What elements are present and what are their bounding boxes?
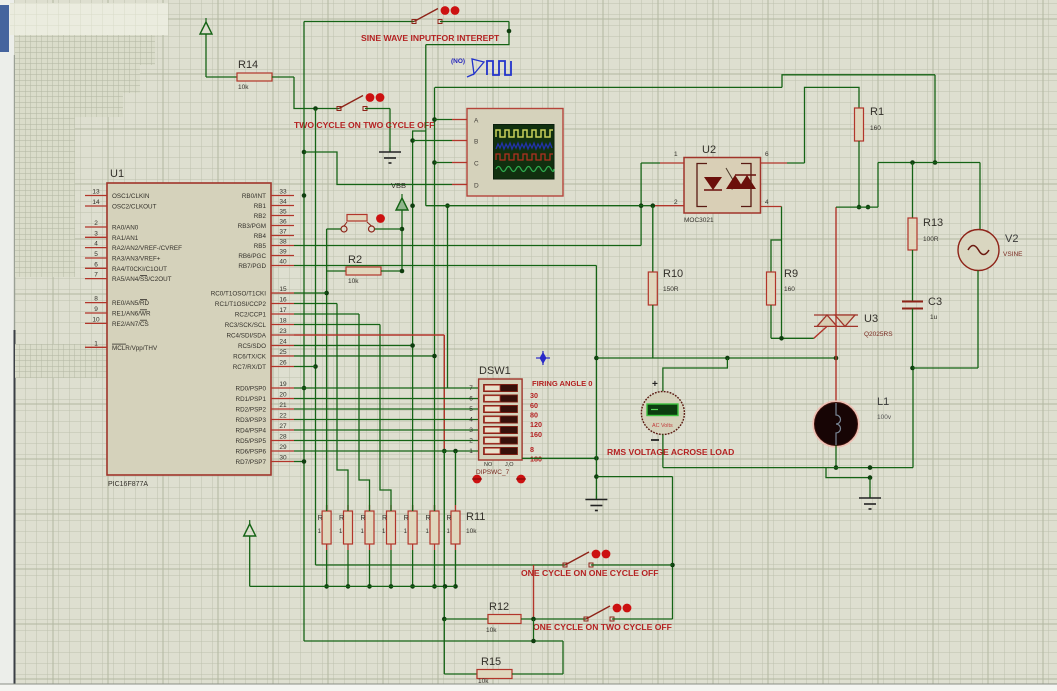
svg-text:8: 8 <box>94 296 98 303</box>
pin 38 stub <box>271 245 294 247</box>
svg-text:1: 1 <box>674 151 678 158</box>
wire C feed <box>435 162 453 164</box>
wire D feed <box>304 152 452 185</box>
junction bank7 top <box>453 449 458 454</box>
wire R10 top <box>652 206 654 272</box>
junction pin2 node <box>639 203 644 208</box>
switch TWO CYCLE <box>337 93 384 110</box>
U2 output triac triangles <box>726 175 756 189</box>
svg-text:2: 2 <box>469 438 473 445</box>
bank resistor 6 <box>430 511 439 544</box>
svg-text:R10: R10 <box>663 268 683 280</box>
wire long vertical B <box>315 109 317 566</box>
svg-text:RD6/PSP6: RD6/PSP6 <box>236 449 267 456</box>
svg-text:5: 5 <box>469 406 473 413</box>
svg-text:Q2025RS: Q2025RS <box>864 331 893 338</box>
wire R12 left <box>444 618 488 620</box>
svg-text:RA0/AN0: RA0/AN0 <box>112 225 139 232</box>
wire triac to lamp <box>835 358 837 403</box>
junction switch2 jog <box>531 617 536 622</box>
bank resistor 4 <box>387 511 396 544</box>
wire DSW pin1 down <box>443 451 445 586</box>
resistor R14 <box>237 73 272 81</box>
pin 28 stub <box>271 440 294 442</box>
junction R14/two-cycle <box>313 106 318 111</box>
svg-text:R11: R11 <box>466 511 485 523</box>
DIP switch DSW1 body <box>479 379 522 460</box>
svg-text:R: R <box>447 515 452 522</box>
bank resistor 2 top stub <box>347 505 349 511</box>
DSW1 slider 4 <box>485 417 501 423</box>
svg-text:40: 40 <box>279 259 287 266</box>
wire vertical 447 <box>447 206 449 388</box>
junction bus 1 <box>324 584 329 589</box>
wire V2 bottom <box>977 271 979 369</box>
wire gate net horizontal <box>596 357 836 359</box>
svg-text:A: A <box>474 117 479 124</box>
svg-text:10k: 10k <box>486 627 497 634</box>
wire mains y87 <box>435 86 782 88</box>
power symbol top-left <box>200 18 212 34</box>
bank resistor 7 <box>451 511 460 544</box>
pin 2 stub <box>85 226 107 228</box>
bank resistor 3 bottom stub <box>369 544 371 550</box>
U2 LED triangle <box>704 177 722 190</box>
svg-text:U3: U3 <box>864 313 878 325</box>
svg-text:37: 37 <box>279 229 287 236</box>
junction A row19 <box>302 386 307 391</box>
junction bus 4 <box>389 584 394 589</box>
svg-text:R: R <box>382 515 387 522</box>
wire triac top horizontal <box>836 206 878 208</box>
svg-text:RC5/SDO: RC5/SDO <box>238 343 266 350</box>
power symbol VBB <box>396 194 408 210</box>
wire to ground mid <box>389 109 391 149</box>
junction B feed <box>410 138 415 143</box>
svg-text:B: B <box>474 138 478 145</box>
svg-text:U2: U2 <box>702 144 716 156</box>
junction B row26 <box>313 364 318 369</box>
wire gate diagonal <box>814 326 827 338</box>
wire bank bus <box>250 585 456 587</box>
IC U1 PIC16F877A body <box>107 183 271 475</box>
bank resistor 4 top stub <box>390 505 392 511</box>
pin 24 stub <box>271 345 294 347</box>
wire R9 top jog <box>771 240 782 272</box>
wire pin2 long left <box>426 205 641 207</box>
wire jog 533 down <box>533 619 535 641</box>
svg-text:RB5: RB5 <box>254 243 267 250</box>
svg-text:6: 6 <box>765 151 769 158</box>
wire arrow down <box>249 536 251 586</box>
svg-text:DSW1: DSW1 <box>479 365 511 377</box>
generator probe triangle <box>467 59 484 77</box>
bank resistor 1 top wire <box>326 505 328 511</box>
svg-text:ONE CYCLE ON ONE CYCLE OFF: ONE CYCLE ON ONE CYCLE OFF <box>521 568 659 578</box>
wire voltmeter minus <box>662 435 664 468</box>
svg-text:10: 10 <box>92 316 100 323</box>
wire C3 bottom <box>912 309 914 369</box>
junction bus 5 <box>410 584 415 589</box>
svg-text:RD1/PSP1: RD1/PSP1 <box>236 396 267 403</box>
voltmeter minus <box>651 439 659 441</box>
source V2 VSINE <box>958 230 999 271</box>
bank resistor 5 bottom wire <box>412 550 414 586</box>
wire row17 <box>294 313 359 315</box>
bank resistor 5 top stub <box>412 505 414 511</box>
svg-text:4: 4 <box>94 241 98 248</box>
wire button left <box>327 228 341 230</box>
wire gnd to switches <box>596 476 672 478</box>
svg-text:RB2: RB2 <box>254 213 267 220</box>
wire B feed stub <box>413 140 452 142</box>
wire R12-R15 vertical <box>443 619 445 674</box>
bank resistor 5 bottom stub <box>412 544 414 550</box>
svg-text:10k: 10k <box>238 84 249 91</box>
junction jog <box>868 475 873 480</box>
pin 23 stub <box>271 334 294 336</box>
U2 output bracket <box>741 164 751 207</box>
svg-text:R: R <box>339 515 344 522</box>
pin 1 stub <box>85 346 107 348</box>
svg-text:2: 2 <box>674 199 678 206</box>
overline MCLR <box>112 343 126 345</box>
svg-text:RB7/PGD: RB7/PGD <box>238 263 266 270</box>
svg-text:160: 160 <box>784 286 795 293</box>
DSW1 slider 6 <box>485 396 501 402</box>
bank resistor 3 top wire <box>369 505 371 511</box>
svg-text:RMS VOLTAGE ACROSE LOAD: RMS VOLTAGE ACROSE LOAD <box>607 447 734 457</box>
wire DSW pin row 1 <box>294 450 479 452</box>
pin 30 stub <box>271 461 294 463</box>
waveform D green sine <box>496 167 554 172</box>
svg-text:7: 7 <box>94 272 98 279</box>
wire row38 long <box>294 245 641 247</box>
voltmeter AC body <box>641 392 684 435</box>
svg-text:5: 5 <box>94 251 98 258</box>
bank resistor 3 top stub <box>369 505 371 511</box>
wire RC2 vertical jog <box>359 314 370 505</box>
svg-text:160: 160 <box>530 430 542 439</box>
svg-text:(NO): (NO) <box>451 58 465 65</box>
bank resistor 2 bottom stub <box>347 544 349 550</box>
wire row30 stub <box>294 461 304 463</box>
svg-text:RC2/CCP1: RC2/CCP1 <box>235 312 267 319</box>
junction switch1 right <box>670 563 675 568</box>
wire C3 node to V2 <box>913 367 979 369</box>
pin 25 stub <box>271 355 294 357</box>
bank resistor 6 bottom stub <box>434 544 436 550</box>
pin 18 stub <box>271 324 294 326</box>
svg-text:RC6/TX/CK: RC6/TX/CK <box>233 354 267 361</box>
oscilloscope pin D stub <box>452 184 467 186</box>
switch ONE CYCLE/ONE CYCLE <box>563 550 610 567</box>
junction R13 top <box>910 160 915 165</box>
wire pin6 to R1 <box>805 87 860 163</box>
wire to R2 <box>327 270 346 272</box>
wire row40 down <box>595 266 597 359</box>
bank resistor 4 bottom stub <box>390 544 392 550</box>
DSW1 slider 2 <box>485 438 501 444</box>
junction bus 6 <box>432 584 437 589</box>
svg-text:14: 14 <box>92 199 100 206</box>
svg-text:10k: 10k <box>466 528 477 535</box>
wire R10 bottom <box>652 305 654 358</box>
wire row18 <box>294 324 380 326</box>
DSW1 slider 1 <box>485 448 501 454</box>
junction bottom row <box>531 639 536 644</box>
wire RC0 net vertical <box>326 271 328 511</box>
wire to R14 <box>206 76 237 78</box>
wire R14 corner down <box>294 77 339 109</box>
overline RD <box>140 298 147 300</box>
svg-text:U1: U1 <box>110 168 124 180</box>
svg-text:RC0/T1OSO/T1CKI: RC0/T1OSO/T1CKI <box>211 291 267 298</box>
DSW1 red circle right <box>516 475 526 484</box>
svg-text:22: 22 <box>279 413 287 420</box>
pin 34 stub <box>271 205 294 207</box>
junction ground right <box>868 465 873 470</box>
resistor R15 <box>477 670 512 679</box>
wire DSW common <box>522 457 596 459</box>
pin 17 stub <box>271 313 294 315</box>
svg-text:R: R <box>404 515 409 522</box>
wire to ground right <box>869 478 871 494</box>
svg-text:1: 1 <box>469 448 473 455</box>
junction mains right <box>933 160 938 165</box>
svg-text:NO: NO <box>484 462 493 468</box>
pin 35 stub <box>271 215 294 217</box>
bank resistor 5 <box>408 511 417 544</box>
wire RC4 red vertical <box>443 335 445 451</box>
wire vsource net <box>878 162 980 164</box>
U2 pin6 wire <box>787 162 805 164</box>
switch SINE WAVE <box>412 6 459 23</box>
svg-text:C: C <box>474 160 479 167</box>
bank resistor 1 bottom stub <box>326 544 328 550</box>
svg-text:19: 19 <box>279 381 287 388</box>
pin 20 stub <box>271 398 294 400</box>
wire VBB down <box>401 210 403 271</box>
svg-text:RD0/PSP0: RD0/PSP0 <box>236 386 267 393</box>
svg-text:RB3/PGM: RB3/PGM <box>238 223 266 230</box>
wire DSW pin row 5 <box>294 408 479 410</box>
bank resistor 1 top stub <box>326 505 328 511</box>
svg-text:23: 23 <box>279 328 287 335</box>
wire DSW pin row 7 <box>294 387 479 389</box>
pin 3 stub <box>85 236 107 238</box>
wire DSW pin row 6 <box>294 398 479 400</box>
junction A row33 <box>302 193 307 198</box>
wire vertical A to bottom row <box>304 640 563 642</box>
svg-text:RD3/PSP3: RD3/PSP3 <box>236 417 267 424</box>
pin 14 stub <box>85 205 107 207</box>
svg-text:VSINE: VSINE <box>1003 251 1023 258</box>
junction R12 left <box>442 617 447 622</box>
junction R10 top <box>651 203 656 208</box>
resistor R12 <box>488 615 521 624</box>
bank resistor 6 top stub <box>434 505 436 511</box>
pin 19 stub <box>271 387 294 389</box>
wire R15 right <box>512 673 563 675</box>
svg-text:ONE CYCLE ON TWO CYCLE OFF: ONE CYCLE ON TWO CYCLE OFF <box>533 622 672 632</box>
U2 pin2 wire <box>641 205 653 207</box>
junction A D-branch <box>302 150 307 155</box>
wire row40 long <box>294 265 596 267</box>
ground left <box>585 496 607 511</box>
wire vertical B to switch row <box>316 564 566 566</box>
svg-text:4: 4 <box>765 199 769 206</box>
junction bus 2 <box>346 584 351 589</box>
svg-text:RC1/T1OSI/CCP2: RC1/T1OSI/CCP2 <box>215 301 267 308</box>
origin marker blue <box>536 351 550 365</box>
resistor R13 <box>908 218 917 250</box>
svg-text:V2: V2 <box>1005 233 1018 245</box>
junction C feed <box>432 160 437 165</box>
svg-text:RD5/PSP5: RD5/PSP5 <box>236 438 267 445</box>
bank resistor 6 top wire <box>434 505 436 511</box>
bank resistor 6 bottom wire <box>434 550 436 586</box>
svg-text:RB0/INT: RB0/INT <box>242 193 266 200</box>
svg-text:18: 18 <box>279 318 287 325</box>
DSW1 slider 3 <box>485 427 501 433</box>
svg-text:10k: 10k <box>348 278 359 285</box>
wire triac bottom red <box>835 326 837 358</box>
junction RC4 at DSW pin1 <box>442 449 447 454</box>
svg-text:3: 3 <box>94 230 98 237</box>
pin 10 stub <box>85 322 107 324</box>
svg-text:39: 39 <box>279 249 287 256</box>
wire up to vsource net <box>877 163 879 208</box>
svg-text:RC4/SDI/SDA: RC4/SDI/SDA <box>226 333 266 340</box>
junction voltmeter plus <box>725 356 730 361</box>
U2 pin1 stub <box>660 162 684 164</box>
wire power to R14 row <box>205 34 207 77</box>
wire button left vertical <box>326 229 328 271</box>
svg-text:10k: 10k <box>478 678 489 685</box>
svg-text:8: 8 <box>530 445 534 454</box>
DSW1 slot 7 <box>484 384 518 391</box>
junction row30 <box>302 459 307 464</box>
svg-text:R14: R14 <box>238 59 258 71</box>
svg-text:R: R <box>318 515 323 522</box>
svg-text:D: D <box>474 182 479 189</box>
svg-text:RA4/T0CKI/C1OUT: RA4/T0CKI/C1OUT <box>112 266 167 273</box>
DSW1 slot 4 <box>484 416 518 423</box>
wire row25 <box>294 355 435 357</box>
junction RC0 row <box>324 291 329 296</box>
lamp L1 <box>814 402 859 447</box>
DSW1 slot 2 <box>484 437 518 444</box>
svg-text:RD4/PSP4: RD4/PSP4 <box>236 428 267 435</box>
pin 29 stub <box>271 450 294 452</box>
DSW1 slider 5 <box>485 406 501 412</box>
pin 7 stub <box>85 278 107 280</box>
junction RC6 <box>432 354 437 359</box>
wire row16 <box>294 303 337 305</box>
pin 37 stub <box>271 235 294 237</box>
svg-text:RC3/SCK/SCL: RC3/SCK/SCL <box>225 322 267 329</box>
wire long vertical A <box>303 22 305 642</box>
DSW1 slot 6 <box>484 395 518 402</box>
ground top-middle <box>379 148 401 163</box>
pin 15 stub <box>271 292 294 294</box>
DSW1 slot 1 <box>484 447 518 454</box>
wire triac top red <box>835 207 837 315</box>
pin 5 stub <box>85 257 107 259</box>
svg-text:30: 30 <box>530 391 538 400</box>
svg-text:VBB: VBB <box>391 181 406 190</box>
DSW1 slot 3 <box>484 426 518 433</box>
svg-text:MOC3021: MOC3021 <box>684 217 714 224</box>
wire B feed jog <box>413 131 426 511</box>
U2 pin6 stub <box>761 162 788 164</box>
bank resistor 7 top stub <box>455 505 457 511</box>
svg-text:RC7/RX/DT: RC7/RX/DT <box>233 364 266 371</box>
svg-text:7: 7 <box>469 385 473 392</box>
svg-text:DIPSWC_7: DIPSWC_7 <box>476 469 510 476</box>
svg-text:FIRING ANGLE 0: FIRING ANGLE 0 <box>532 379 592 388</box>
wire button right <box>375 228 403 230</box>
bank resistor 3 bottom wire <box>369 550 371 586</box>
svg-text:35: 35 <box>279 209 287 216</box>
svg-text:160: 160 <box>870 125 881 132</box>
svg-text:13: 13 <box>92 189 100 196</box>
svg-text:34: 34 <box>279 199 287 206</box>
junction lamp bottom <box>834 465 839 470</box>
wire switch right <box>365 108 390 110</box>
oscilloscope pin B stub <box>452 140 467 142</box>
wire R9 bottom <box>770 305 772 338</box>
wire R13 top <box>912 163 914 219</box>
bank resistor 5 top wire <box>412 505 414 511</box>
wire R14 right <box>272 76 294 78</box>
svg-text:30: 30 <box>279 455 287 462</box>
pin 36 stub <box>271 225 294 227</box>
svg-text:R1: R1 <box>870 106 884 118</box>
junction gate net left <box>594 356 599 361</box>
junction button/VBB <box>400 227 405 232</box>
bank resistor 1 bottom wire <box>326 550 328 586</box>
svg-text:R2: R2 <box>348 254 362 266</box>
DSW1 slider 7 <box>485 385 501 391</box>
U2 input bracket <box>697 164 707 207</box>
wire switch1 branch red <box>533 565 535 619</box>
triac U3 <box>814 315 858 326</box>
oscilloscope body <box>467 109 563 197</box>
svg-text:OSC1/CLKIN: OSC1/CLKIN <box>112 193 150 200</box>
svg-text:MCLR/Vpp/THV: MCLR/Vpp/THV <box>112 345 158 352</box>
svg-text:SINE WAVE INPUTFOR INTEREPT: SINE WAVE INPUTFOR INTEREPT <box>361 33 500 43</box>
capacitor C3 <box>902 302 923 309</box>
svg-text:RE2/AN7/CS: RE2/AN7/CS <box>112 321 149 328</box>
svg-text:R15: R15 <box>481 656 501 668</box>
wire mains down right <box>934 75 936 163</box>
wire R13 to C3 <box>912 250 914 301</box>
svg-text:120: 120 <box>530 420 542 429</box>
svg-text:150R: 150R <box>663 286 679 293</box>
svg-text:R13: R13 <box>923 217 943 229</box>
svg-text:6: 6 <box>94 261 98 268</box>
push button <box>341 214 385 232</box>
wire R1 bottom <box>858 141 860 207</box>
junction R2 right <box>400 269 405 274</box>
svg-text:RA2/AN2/VREF-/CVREF: RA2/AN2/VREF-/CVREF <box>112 245 182 252</box>
resistor R9 <box>767 272 776 305</box>
junction pin2/412 <box>410 203 415 208</box>
wire ground-left vertical <box>595 358 597 496</box>
svg-text:36: 36 <box>279 219 287 226</box>
